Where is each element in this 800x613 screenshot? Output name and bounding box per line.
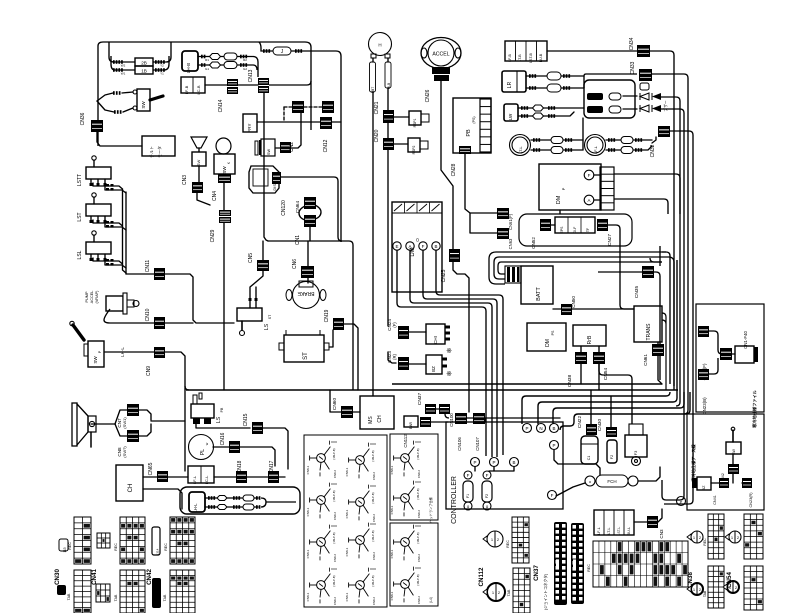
svg-text:C1: C1 <box>587 456 591 461</box>
svg-text:CN11: CN11 <box>145 260 151 273</box>
svg-text:F: F <box>551 493 554 498</box>
connector CN29 <box>210 210 231 242</box>
plug RSP2 <box>408 138 428 154</box>
svg-text:BZ: BZ <box>702 485 706 491</box>
svg-text:R2: R2 <box>243 58 247 62</box>
wire CN50 bus <box>553 308 634 310</box>
terminal E <box>393 242 401 250</box>
svg-text:1314: 1314 <box>156 548 160 555</box>
wire CN28 down <box>465 154 497 233</box>
svg-text:CN8-1: CN8-1 <box>306 507 310 516</box>
box EPS DI-F TF <box>555 217 595 233</box>
box CHI <box>426 324 450 344</box>
keyhole CN38 tab <box>687 583 703 595</box>
wire DISP right <box>281 177 342 241</box>
terminal B <box>432 242 440 250</box>
wire CN29 down bus <box>223 223 225 390</box>
svg-text:(F): (F) <box>392 322 397 328</box>
wire to CN23R branch <box>388 352 396 363</box>
connector CN50 <box>561 296 576 315</box>
terminal P2 <box>490 458 499 467</box>
svg-text:CN61: CN61 <box>643 354 648 366</box>
svg-text:REC: REC <box>68 542 72 550</box>
cable tag HL <box>385 62 391 89</box>
label OB2 jp <box>690 444 697 482</box>
svg-text:2B: 2B <box>141 61 147 66</box>
svg-text:BZ: BZ <box>431 366 436 372</box>
starter ST <box>279 330 329 362</box>
label CN38b tab <box>703 590 707 597</box>
wire DMP down <box>551 210 560 225</box>
wire DMO F <box>423 250 497 457</box>
svg-text:LT-L: LT-L <box>607 528 611 535</box>
svg-text:CN15: CN15 <box>243 413 249 426</box>
relay row1 <box>587 93 637 100</box>
svg-text:ACCEL: ACCEL <box>90 291 94 304</box>
wire CN15 right <box>263 428 288 469</box>
connector CN62 <box>531 219 551 249</box>
wire trans right arcs <box>662 313 666 390</box>
connector CN112a <box>403 416 418 448</box>
battery cable u3 <box>498 262 662 274</box>
terminal P0 <box>677 497 686 506</box>
terminal T3 <box>550 424 559 433</box>
label buzzer <box>663 100 668 112</box>
svg-text:P: P <box>561 187 566 190</box>
wire ST to CN19 <box>329 330 333 347</box>
limit switch LS T <box>77 193 126 230</box>
svg-text:CN112: CN112 <box>403 434 408 448</box>
wire inner top line <box>259 42 341 242</box>
motor DM-PS <box>527 323 566 351</box>
svg-text:CN8-2: CN8-2 <box>333 512 337 521</box>
connector CN35 <box>634 266 654 298</box>
svg-text:CN112: CN112 <box>478 567 485 586</box>
joint connector CN37 strip2 <box>571 523 584 604</box>
wire CN10 right <box>165 322 193 324</box>
svg-text:LT-L: LT-L <box>519 146 523 153</box>
svg-text:CN34: CN34 <box>629 37 635 50</box>
connector CN15 <box>243 413 263 434</box>
svg-text:B: B <box>434 244 437 249</box>
svg-text:CN50: CN50 <box>571 296 576 308</box>
svg-text:CN52: CN52 <box>531 237 536 249</box>
fuse J <box>263 47 302 55</box>
table CN38 rec <box>593 541 688 587</box>
svg-text:F2: F2 <box>485 494 489 498</box>
wire bundle y414 <box>560 392 690 430</box>
svg-text:寒冷地仕様アース線: 寒冷地仕様アース線 <box>690 444 697 482</box>
svg-text:CN22: CN22 <box>577 416 583 429</box>
svg-text:CH: CH <box>128 484 134 493</box>
box LF-B LC-B <box>181 77 205 95</box>
speaker <box>72 403 96 447</box>
box PB <box>453 98 491 153</box>
connector CN18 <box>236 460 247 483</box>
table CN38 side tab <box>708 566 724 608</box>
pump accel potentiometer <box>106 293 139 314</box>
battery terminal comb <box>505 266 521 283</box>
connector CN36 <box>80 112 103 132</box>
svg-text:CN8-2: CN8-2 <box>417 554 421 563</box>
svg-text:CN20: CN20 <box>374 129 380 142</box>
svg-text:TAB: TAB <box>114 594 118 601</box>
svg-text:FRY: FRY <box>247 124 252 133</box>
wire F3 up <box>599 364 632 424</box>
svg-text:CN13: CN13 <box>248 69 254 82</box>
connector CN20 <box>374 129 394 150</box>
svg-text:CN30: CN30 <box>597 419 603 432</box>
wire PL to CN16 <box>213 446 229 448</box>
svg-text:REC: REC <box>703 538 707 546</box>
label OB1 CN23B <box>702 397 707 415</box>
tag CN30 tab <box>57 585 71 600</box>
svg-text:LST: LST <box>77 212 83 221</box>
wire DMO B <box>436 250 503 455</box>
svg-text:F: F <box>422 244 425 249</box>
svg-text:PB: PB <box>220 407 224 412</box>
svg-text:(VRAP): (VRAP) <box>95 290 99 304</box>
relay FCH <box>585 475 638 487</box>
connector CN27 <box>597 219 612 246</box>
svg-text:W1: W1 <box>121 72 126 76</box>
svg-text:チルト: チルト <box>149 146 154 158</box>
svg-text:CN106: CN106 <box>457 437 462 451</box>
svg-text:CN17: CN17 <box>269 460 275 473</box>
wire dashed net <box>284 107 322 120</box>
svg-text:G1: G1 <box>205 67 209 71</box>
connector CN23R <box>387 351 409 370</box>
fuse F2 <box>482 481 492 502</box>
svg-text:CN107: CN107 <box>475 437 480 451</box>
svg-text:DI-F: DI-F <box>573 227 577 234</box>
table CN41 rec <box>120 517 145 564</box>
fuse F1 <box>463 481 473 502</box>
svg-text:Y1: Y1 <box>160 72 164 76</box>
battery BATT <box>521 266 553 304</box>
connector CN7 <box>117 404 139 429</box>
connector CN38 <box>567 352 587 387</box>
connector CN28 <box>451 146 471 176</box>
svg-text:CN8-1: CN8-1 <box>306 549 310 558</box>
connector strip LF-L <box>594 510 634 535</box>
svg-text:F3: F3 <box>633 450 638 455</box>
option box 1 <box>696 304 764 412</box>
svg-text:CN5: CN5 <box>248 253 254 263</box>
svg-text:REC: REC <box>114 543 118 551</box>
joint connector CN37 strip1 <box>554 522 567 605</box>
svg-text:F2: F2 <box>610 455 614 459</box>
wire CN24F to CHI <box>409 331 426 333</box>
cable tag HB <box>370 62 376 93</box>
wire LW row2 <box>518 112 574 119</box>
label CN112 <box>478 567 485 586</box>
limit switch LS-PB <box>191 393 224 424</box>
svg-text:CN38: CN38 <box>567 375 573 388</box>
wire top-left outer bus <box>98 42 311 146</box>
svg-text:(18LP-B): (18LP-B) <box>332 532 336 543</box>
svg-text:CN8-2: CN8-2 <box>372 472 376 481</box>
limit switch LS L <box>77 231 126 268</box>
label OB1 CN24F <box>702 363 707 380</box>
svg-text:CN26: CN26 <box>425 89 431 102</box>
wire CN13 right up <box>269 81 311 85</box>
wire LH-B row1 <box>198 53 253 60</box>
svg-text:(18LP-B): (18LP-B) <box>416 448 420 459</box>
wire CN3 down <box>197 193 210 205</box>
connector OB1 a <box>698 326 709 337</box>
svg-text:BU-L: BU-L <box>627 527 631 535</box>
wire CN65 right <box>168 476 188 478</box>
connector CN60 <box>332 398 353 418</box>
wire CN22 up <box>590 390 592 424</box>
wire CN7 CN8 merge <box>139 410 185 436</box>
tag CN42 tab <box>152 578 167 608</box>
label CN120 <box>281 200 287 216</box>
box LW <box>504 104 518 121</box>
svg-text:CN65: CN65 <box>148 462 154 475</box>
svg-text:CN8-2: CN8-2 <box>333 554 337 563</box>
svg-text:CN21: CN21 <box>374 101 380 114</box>
svg-text:F: F <box>486 473 489 478</box>
svg-text:TF: TF <box>586 228 590 232</box>
svg-text:SW: SW <box>222 166 227 174</box>
svg-text:CHI: CHI <box>433 336 438 344</box>
svg-text:O: O <box>415 238 420 242</box>
svg-text:P: P <box>525 426 528 431</box>
connector CN54a <box>593 352 609 380</box>
svg-text:(18LP-B): (18LP-B) <box>416 532 420 543</box>
limit switch LS TT <box>77 156 126 193</box>
table CN54 rec <box>744 514 763 559</box>
connector CN25 <box>441 249 460 282</box>
wire OB2 <box>711 454 748 483</box>
svg-text:(PS): (PS) <box>472 116 476 123</box>
connector CN24F <box>387 319 409 339</box>
wire LS bus vertical <box>123 189 127 274</box>
svg-text:LR: LR <box>507 81 513 88</box>
connector DISP block <box>272 172 281 184</box>
svg-text:LT-B: LT-B <box>518 54 522 62</box>
wire LHL merge <box>261 498 296 507</box>
connector CN9 <box>146 347 165 376</box>
wire CN20 RSP2 <box>388 144 408 326</box>
terminal F <box>584 170 601 180</box>
wire FCH right <box>638 467 660 481</box>
svg-text:CN8-2: CN8-2 <box>372 514 376 523</box>
wire ctrl inner <box>475 467 514 471</box>
wire M left foot <box>372 58 374 396</box>
svg-text:TRANS: TRANS <box>646 323 652 341</box>
terminal T2 <box>537 424 546 433</box>
svg-text:LW: LW <box>508 113 513 120</box>
keyhole CN54 tab <box>723 581 739 593</box>
svg-text:SW: SW <box>267 149 271 156</box>
svg-text:(18LP-B): (18LP-B) <box>332 490 336 501</box>
label CN41 <box>91 569 98 585</box>
connector CN33 <box>630 61 652 81</box>
svg-text:LS: LS <box>264 323 270 330</box>
wire SWW to CN2 <box>276 113 301 148</box>
svg-text:CN12: CN12 <box>323 139 329 152</box>
accel sensor ACCEL <box>421 38 461 69</box>
wire CN21 RSP1 <box>388 117 409 138</box>
wire bundle y396 <box>522 392 670 424</box>
table CN30 rec <box>74 517 91 564</box>
motor DM-P <box>539 164 601 210</box>
svg-text:TAB: TAB <box>703 590 707 597</box>
wire LW row1 <box>518 105 584 111</box>
svg-text:CN23(R): CN23(R) <box>749 492 753 508</box>
svg-text:(R): (R) <box>392 353 397 359</box>
lamp LH-B <box>182 51 198 73</box>
switch SW-W <box>255 139 275 156</box>
wire CN17 right <box>279 476 285 478</box>
lamp L1 <box>510 135 531 156</box>
svg-text:CN100: CN100 <box>449 413 454 427</box>
terminal F1b <box>464 502 472 510</box>
svg-text:P: P <box>492 460 495 465</box>
svg-text:BATT: BATT <box>536 287 542 301</box>
connector ACCEL block <box>432 67 450 81</box>
svg-text:TAB: TAB <box>163 594 167 601</box>
svg-text:REC: REC <box>164 543 168 551</box>
svg-text:寒冷地仕様ファイル: 寒冷地仕様ファイル <box>751 389 758 428</box>
connector CN37a <box>417 393 436 414</box>
label CN38 <box>687 572 694 588</box>
wire CN35 line <box>598 248 660 380</box>
transmission TRANS <box>634 306 662 342</box>
wire L2 to CN32 <box>652 137 656 143</box>
fuse 2B <box>109 42 171 66</box>
svg-text:※: ※ <box>446 371 452 378</box>
svg-text:DM: DM <box>556 195 562 204</box>
terminal F2b <box>483 502 491 510</box>
label CN54 <box>726 572 733 588</box>
svg-text:(18LP-B): (18LP-B) <box>371 575 375 586</box>
svg-text:A: A <box>408 244 411 249</box>
svg-text:1B: 1B <box>141 69 147 74</box>
svg-text:LC-L: LC-L <box>204 475 209 484</box>
connector CN12 <box>320 117 341 152</box>
svg-text:H: H <box>378 43 381 48</box>
switch SW toggle <box>97 89 163 114</box>
table CN112 tab <box>513 568 530 613</box>
inspection table T3 <box>390 523 438 606</box>
svg-text:W2: W2 <box>121 64 126 68</box>
connector OB2 CN23R <box>742 478 753 507</box>
inspection table T2 <box>390 434 438 523</box>
box OB2 BZ <box>692 477 711 490</box>
connector CN17 <box>268 460 279 483</box>
svg-text:CN8-2: CN8-2 <box>333 470 337 479</box>
svg-text:モータ: モータ <box>156 146 162 158</box>
relay row2 <box>587 106 637 113</box>
mark kome1 <box>446 348 452 355</box>
connector CN13 <box>248 69 269 93</box>
svg-text:FCH: FCH <box>607 479 616 484</box>
keyhole CN112 tab <box>483 583 505 601</box>
connector CN2a <box>292 101 304 113</box>
svg-text:CN8-1: CN8-1 <box>390 591 394 600</box>
svg-text:CN3: CN3 <box>182 175 188 185</box>
wire bundle y408 <box>553 392 684 424</box>
fuse holder C1 <box>581 436 598 464</box>
wire CH to CN65 <box>143 477 182 509</box>
box LF-L LC-L <box>188 466 214 484</box>
connector CN63 <box>497 228 513 249</box>
wire L2 row1 <box>606 137 652 144</box>
wire DMO E <box>397 250 486 456</box>
svg-text:F: F <box>467 473 470 478</box>
label CN112 tab <box>507 589 511 596</box>
svg-text:CN8-2: CN8-2 <box>417 470 421 479</box>
svg-text:(L4): (L4) <box>429 597 433 603</box>
svg-text:F1: F1 <box>466 494 470 498</box>
component OB1 fan <box>735 346 758 363</box>
box CONTROLLER <box>446 422 563 524</box>
wire pump to CN10 <box>104 309 154 323</box>
svg-text:CN16: CN16 <box>220 432 226 445</box>
motor M <box>369 33 392 59</box>
connector CN11 <box>145 260 165 280</box>
label OB1 jp <box>751 389 758 428</box>
svg-text:BRAKE: BRAKE <box>297 290 315 296</box>
connector OB1 b <box>720 348 732 360</box>
svg-text:A: A <box>587 198 590 203</box>
svg-text:Y2: Y2 <box>160 64 164 68</box>
connector CN8 <box>117 430 139 458</box>
wire M right foot <box>387 58 389 110</box>
connector CN61F <box>497 208 513 230</box>
wire bus y390 <box>186 389 678 391</box>
inspection table T1 <box>304 435 387 607</box>
svg-text:LF-B: LF-B <box>184 85 189 94</box>
wire strip to CN43 <box>634 509 662 522</box>
switch OB2 toggle <box>726 427 741 455</box>
label PUMP ACCEL <box>85 290 99 304</box>
mark kome2 <box>446 371 452 378</box>
wire CN11 right <box>165 274 234 323</box>
wire main bus y241 <box>268 241 353 390</box>
svg-text:LSL: LSL <box>77 250 83 259</box>
svg-text:CN14: CN14 <box>218 99 224 112</box>
connector OB2 CN41 <box>713 478 729 505</box>
svg-text:P: P <box>552 443 555 448</box>
connector CN3 <box>182 175 203 193</box>
svg-text:CN1: CN1 <box>295 235 301 245</box>
connector CN34 <box>629 37 650 57</box>
wire CN14 to CN13 <box>238 84 258 86</box>
table CN112 rec <box>512 517 529 563</box>
wire CN25 down <box>453 262 469 412</box>
svg-text:CN36: CN36 <box>80 112 86 125</box>
fuse small vertical <box>640 83 649 90</box>
terminal A <box>584 195 601 205</box>
wire CN23R to BZ <box>409 363 426 365</box>
switch SW-P key <box>70 321 104 367</box>
wire RrB stubs <box>581 346 599 390</box>
wire P to FCH <box>554 450 600 475</box>
fuse F3 <box>625 424 647 466</box>
option box 2 <box>687 414 764 510</box>
svg-text:G2: G2 <box>243 67 247 71</box>
wire cn112 stub <box>430 409 448 422</box>
svg-text:P: P <box>473 460 476 465</box>
fuse 1B <box>111 56 169 74</box>
connector CN6 <box>292 259 314 278</box>
svg-text:SW: SW <box>196 160 201 167</box>
